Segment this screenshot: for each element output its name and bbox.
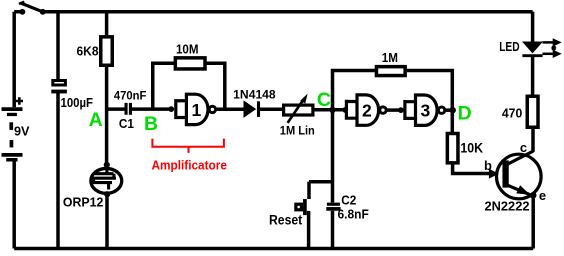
svg-text:470: 470 — [502, 106, 522, 121]
svg-text:3: 3 — [421, 100, 431, 120]
svg-text:1M: 1M — [382, 51, 398, 65]
svg-text:c: c — [520, 140, 527, 155]
svg-text:100µF: 100µF — [61, 95, 94, 110]
svg-text:6K8: 6K8 — [77, 45, 99, 59]
svg-text:C2: C2 — [341, 193, 356, 207]
svg-text:10M: 10M — [176, 41, 199, 56]
svg-text:C: C — [317, 89, 331, 111]
svg-text:470nF: 470nF — [114, 89, 146, 103]
svg-text:2N2222: 2N2222 — [485, 199, 530, 214]
svg-text:b: b — [484, 158, 492, 173]
svg-text:6.8nF: 6.8nF — [338, 208, 370, 222]
svg-text:1M Lin: 1M Lin — [280, 123, 315, 137]
svg-text:B: B — [144, 113, 158, 135]
svg-text:Amplificatore: Amplificatore — [152, 158, 227, 172]
svg-text:LED: LED — [499, 39, 519, 54]
svg-text:D: D — [458, 103, 472, 125]
svg-text:A: A — [89, 109, 103, 131]
svg-text:9V: 9V — [14, 124, 30, 138]
svg-text:e: e — [539, 188, 546, 203]
svg-text:ORP12: ORP12 — [63, 194, 104, 209]
svg-text:C1: C1 — [119, 117, 134, 131]
svg-text:2: 2 — [362, 100, 372, 120]
svg-text:Reset: Reset — [269, 213, 303, 228]
svg-text:10K: 10K — [460, 141, 483, 156]
svg-text:1N4148: 1N4148 — [233, 88, 276, 102]
svg-text:1: 1 — [192, 100, 202, 120]
